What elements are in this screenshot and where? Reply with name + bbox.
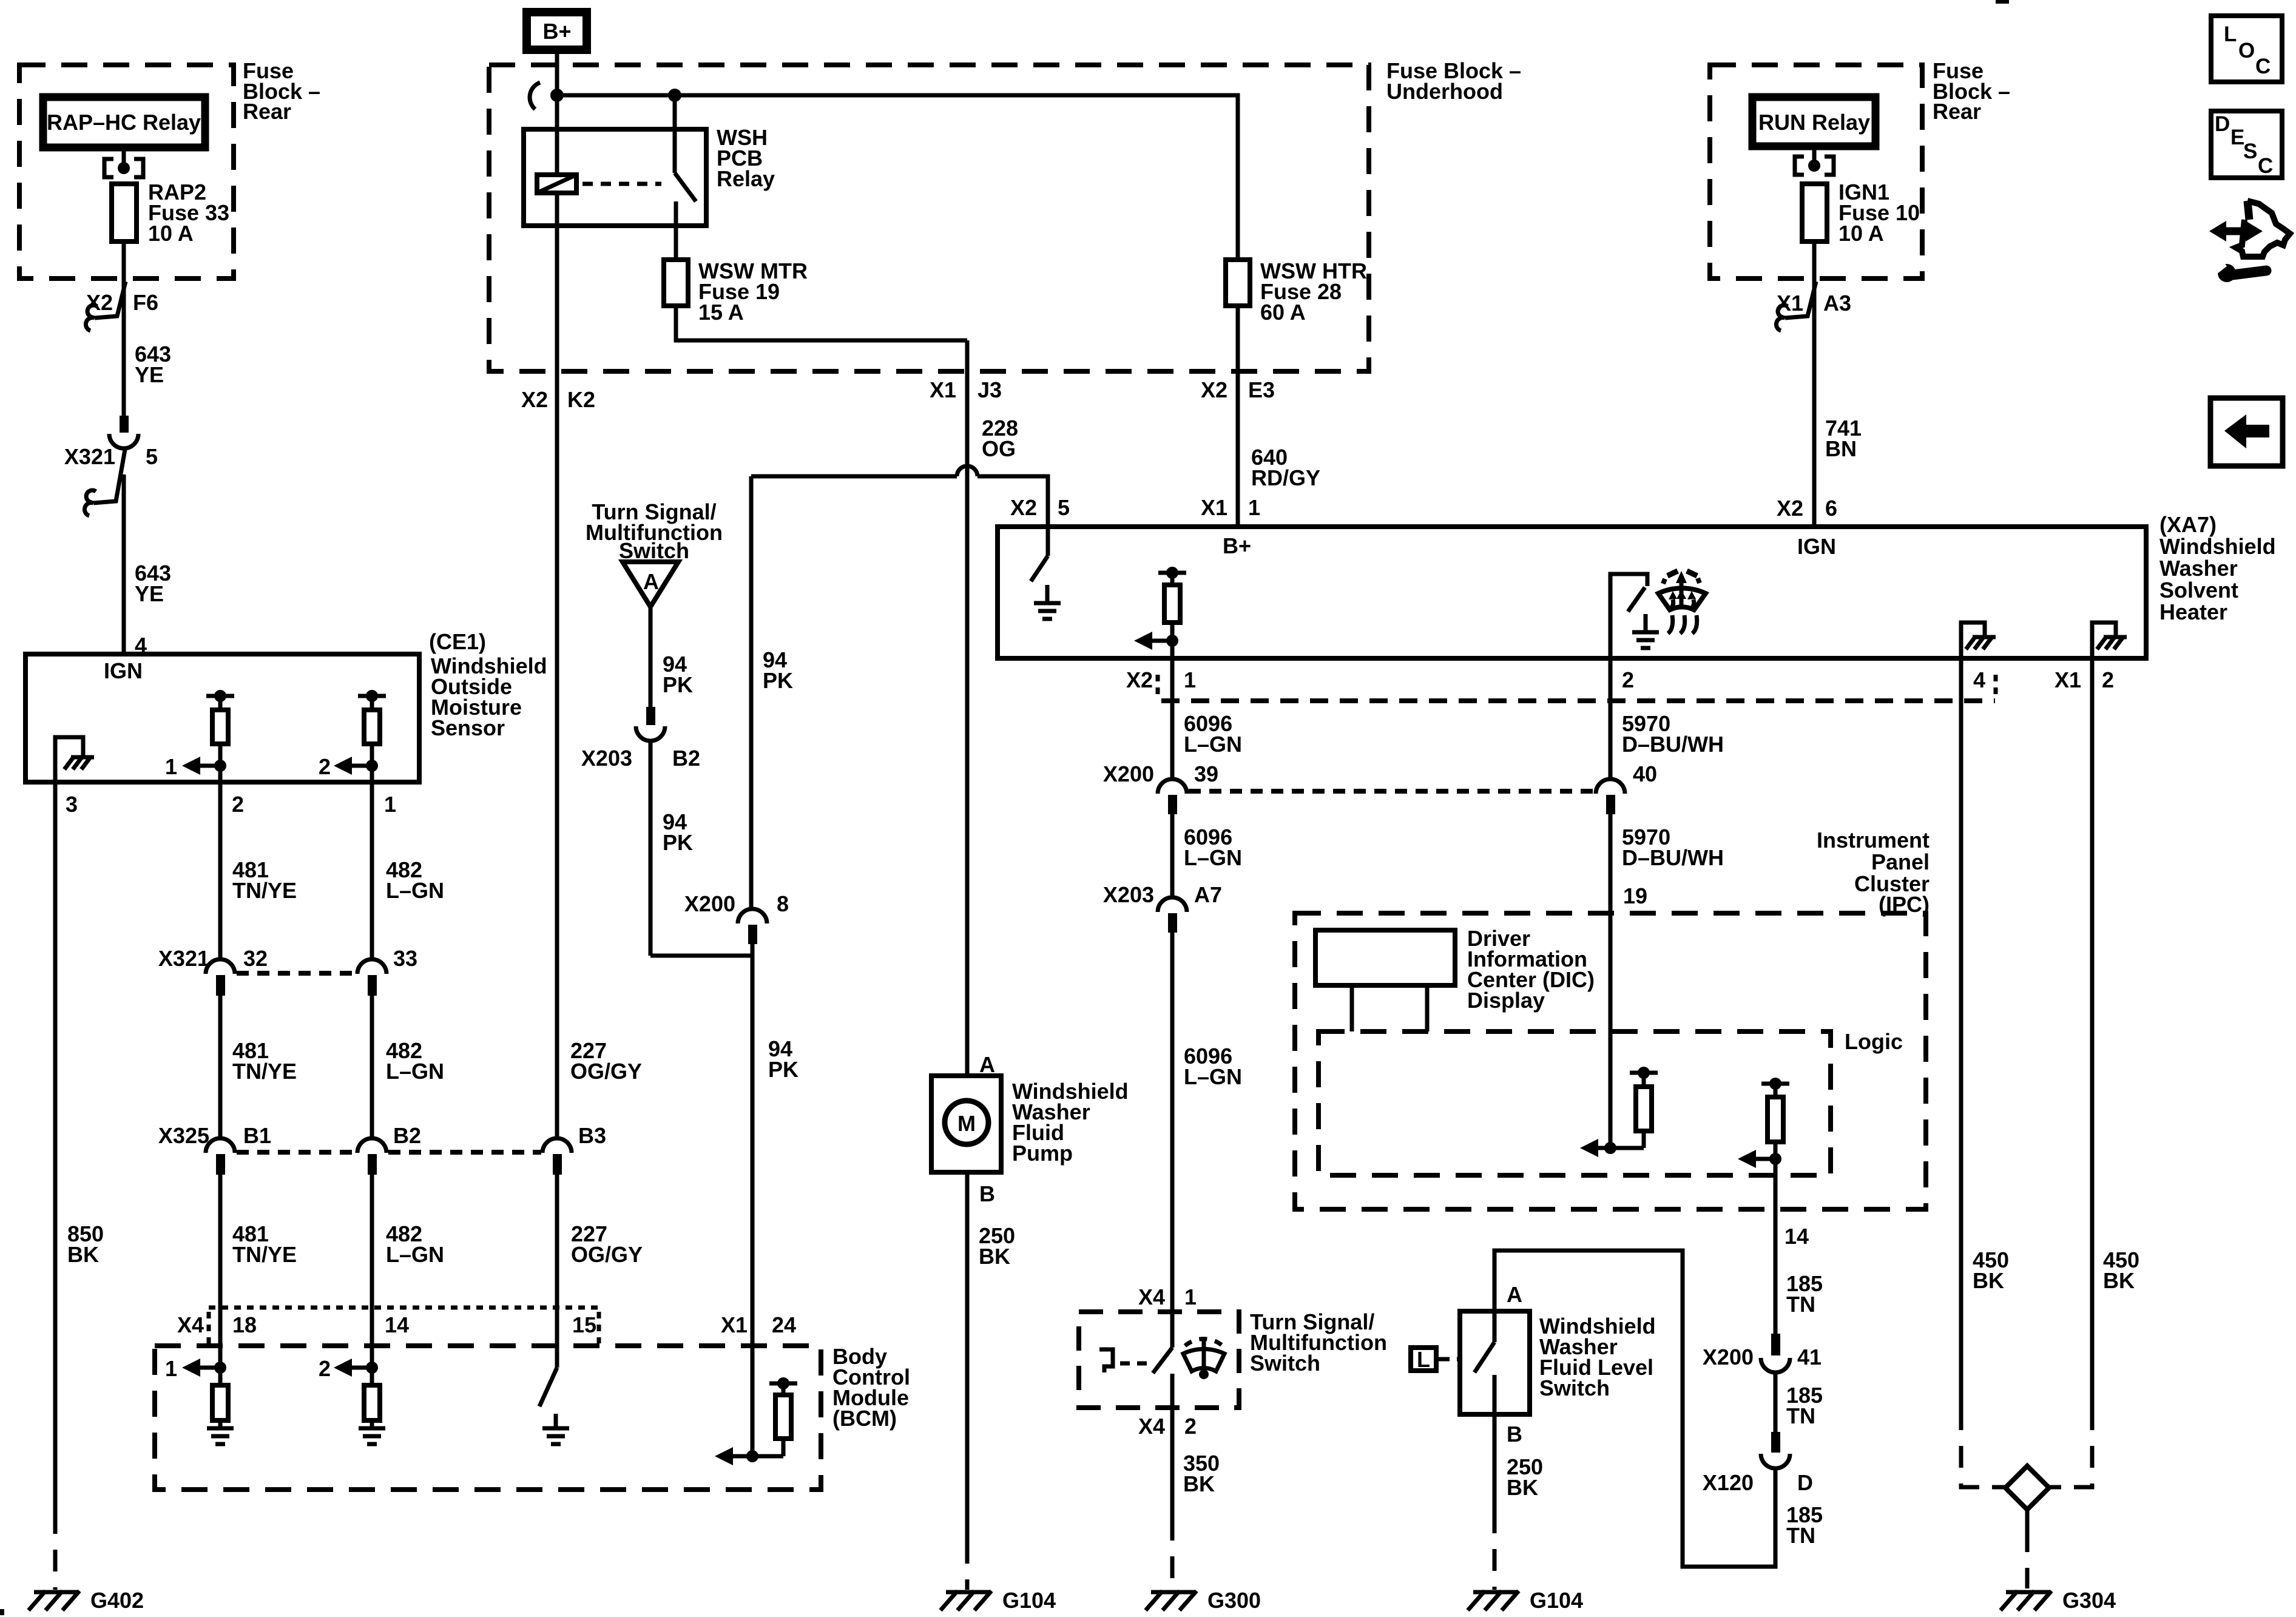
wire 482 L-GN to BCM pin 2 bbox=[370, 1175, 374, 1385]
svg-text:X2: X2 bbox=[1010, 495, 1037, 520]
ground G104 bbox=[940, 1588, 1056, 1613]
svg-text:E3: E3 bbox=[1248, 377, 1275, 402]
WSH PCB Relay box bbox=[524, 129, 706, 226]
svg-text:Switch: Switch bbox=[1539, 1376, 1610, 1400]
svg-text:1: 1 bbox=[165, 1356, 177, 1381]
svg-text:A3: A3 bbox=[1823, 291, 1851, 316]
svg-text:2: 2 bbox=[232, 792, 244, 817]
dashed connector line X200 39-40 bbox=[1189, 789, 1595, 794]
DIC display box bbox=[1315, 930, 1455, 985]
splice diamond bbox=[2005, 1466, 2049, 1510]
B+ bus wire to WSW HTR fuse bbox=[557, 95, 1238, 260]
svg-text:BK: BK bbox=[1507, 1475, 1538, 1500]
back arrow box bbox=[2210, 398, 2283, 466]
svg-text:39: 39 bbox=[1194, 761, 1218, 786]
svg-text:X4: X4 bbox=[1138, 1414, 1165, 1439]
svg-text:A: A bbox=[979, 1052, 995, 1077]
wire 482 L-GN middle bbox=[370, 996, 374, 1139]
svg-text:X1: X1 bbox=[721, 1312, 748, 1337]
svg-text:41: 41 bbox=[1797, 1345, 1822, 1369]
svg-text:Relay: Relay bbox=[717, 166, 775, 191]
heater box bbox=[998, 527, 2146, 658]
DESC box bbox=[2211, 111, 2282, 178]
wire relay to fuse RAP2 bbox=[122, 147, 126, 163]
heater pin5 switch to ground bbox=[1046, 527, 1050, 556]
BCM input 15 switch to ground bbox=[539, 1368, 557, 1406]
svg-text:X4: X4 bbox=[177, 1312, 204, 1337]
svg-text:A: A bbox=[1507, 1282, 1522, 1307]
connector clip at F6 bbox=[95, 282, 126, 318]
fuse block underhood dashed box bbox=[489, 65, 1369, 371]
BCM input 1 resistor to ground bbox=[165, 1356, 234, 1444]
svg-text:X1: X1 bbox=[2055, 667, 2081, 692]
wiper washer icon bbox=[1183, 1337, 1224, 1379]
svg-text:A7: A7 bbox=[1194, 882, 1222, 907]
connector X325 pin B3 bbox=[542, 1138, 572, 1153]
connector X203 pin A7 bbox=[1158, 897, 1187, 912]
fuse RAP2 Fuse 33 10A bbox=[112, 184, 137, 241]
svg-text:PK: PK bbox=[768, 1057, 799, 1082]
svg-text:PK: PK bbox=[663, 672, 693, 697]
connector clip at A3 bbox=[1785, 282, 1816, 318]
svg-text:X200: X200 bbox=[684, 891, 735, 916]
LOC box bbox=[2211, 16, 2282, 82]
wire 228 OG J3 to washer pump A bbox=[965, 340, 970, 1076]
sensor box bbox=[25, 654, 419, 782]
svg-text:2: 2 bbox=[1622, 667, 1634, 692]
svg-text:8: 8 bbox=[777, 891, 789, 916]
svg-text:L–GN: L–GN bbox=[1184, 845, 1242, 870]
svg-text:BK: BK bbox=[1183, 1471, 1215, 1496]
svg-text:D: D bbox=[1797, 1470, 1813, 1495]
svg-text:Logic: Logic bbox=[1845, 1029, 1903, 1054]
dashed link to switch bbox=[1120, 1362, 1150, 1366]
fuse IGN1 Fuse 10 10A bbox=[1802, 184, 1827, 241]
page corner artifacts bbox=[1996, 0, 2009, 4]
wire 185 TN bbox=[1774, 1372, 1778, 1432]
svg-text:YE: YE bbox=[135, 581, 164, 606]
fluid level switch box bbox=[1460, 1311, 1530, 1414]
svg-text:X120: X120 bbox=[1703, 1470, 1754, 1495]
motor circle M bbox=[945, 1101, 988, 1144]
wire K2 down to X325 B3 bbox=[555, 193, 559, 1139]
svg-text:BK: BK bbox=[2103, 1268, 2135, 1293]
svg-text:TN: TN bbox=[1786, 1292, 1815, 1317]
svg-text:B2: B2 bbox=[672, 746, 700, 771]
svg-text:4: 4 bbox=[1973, 667, 1985, 692]
svg-text:G304: G304 bbox=[2062, 1588, 2116, 1613]
svg-text:IGN: IGN bbox=[1797, 534, 1836, 559]
svg-text:IGN: IGN bbox=[104, 658, 143, 683]
svg-text:L–GN: L–GN bbox=[386, 1242, 444, 1267]
wire fuse 33 down to sensor pin 4 bbox=[122, 241, 126, 418]
svg-text:S: S bbox=[2243, 140, 2257, 163]
svg-text:Windshield: Windshield bbox=[2159, 534, 2276, 559]
connector X321 pin 5 : pin and socket bbox=[120, 416, 129, 433]
svg-text:24: 24 bbox=[772, 1312, 796, 1337]
svg-text:G104: G104 bbox=[1530, 1588, 1583, 1613]
svg-text:10 A: 10 A bbox=[1838, 221, 1884, 246]
svg-text:(BCM): (BCM) bbox=[832, 1406, 897, 1431]
svg-text:B+: B+ bbox=[1223, 533, 1251, 558]
svg-text:TN: TN bbox=[1786, 1523, 1815, 1548]
svg-text:Pump: Pump bbox=[1012, 1141, 1073, 1166]
wire 481 TN/YE middle bbox=[218, 996, 223, 1139]
svg-text:32: 32 bbox=[243, 946, 268, 971]
dashed link L to switch bbox=[1439, 1357, 1460, 1362]
svg-text:Switch: Switch bbox=[619, 538, 689, 563]
svg-text:C: C bbox=[2258, 154, 2273, 178]
diagnostic arrow-wrench icon bbox=[2209, 201, 2290, 282]
wire 250 BK pump to G104 bbox=[965, 1172, 970, 1542]
ground G402 bbox=[29, 1588, 144, 1613]
BCM input 24 resistor bbox=[715, 1377, 797, 1465]
svg-text:B: B bbox=[1507, 1422, 1522, 1447]
svg-text:X2: X2 bbox=[86, 290, 113, 315]
svg-text:L–GN: L–GN bbox=[1184, 732, 1242, 757]
svg-text:B+: B+ bbox=[542, 19, 571, 44]
svg-text:X2: X2 bbox=[521, 387, 548, 412]
svg-text:OG/GY: OG/GY bbox=[570, 1059, 642, 1084]
svg-text:RUN Relay: RUN Relay bbox=[1758, 110, 1870, 135]
svg-text:TN/YE: TN/YE bbox=[232, 1059, 297, 1084]
svg-text:X203: X203 bbox=[581, 746, 632, 771]
svg-text:X200: X200 bbox=[1103, 761, 1154, 786]
svg-text:5: 5 bbox=[146, 444, 158, 469]
svg-text:M: M bbox=[957, 1111, 976, 1136]
svg-text:G402: G402 bbox=[90, 1588, 144, 1613]
svg-text:1: 1 bbox=[165, 754, 177, 779]
svg-text:X1: X1 bbox=[1201, 495, 1227, 520]
svg-text:X2: X2 bbox=[1201, 377, 1227, 402]
lever detent element bbox=[1099, 1349, 1113, 1372]
svg-text:BK: BK bbox=[1973, 1268, 2004, 1293]
svg-text:1: 1 bbox=[1184, 667, 1196, 692]
fuse holder brackets IGN1 bbox=[1795, 157, 1804, 175]
wire B+ down into relay bbox=[555, 50, 559, 175]
wire 850 BK pin3 to G402 bbox=[53, 782, 58, 1512]
TS switch blade bbox=[1153, 1348, 1172, 1373]
wire corner to BCM X1-24 bbox=[650, 944, 752, 956]
svg-text:14: 14 bbox=[385, 1312, 409, 1337]
TS switch dashed box bbox=[1079, 1312, 1239, 1408]
connector X200 pin 41 bbox=[1771, 1334, 1780, 1355]
sensor current source pin 1 bbox=[165, 690, 234, 782]
L option box bbox=[1411, 1348, 1436, 1371]
svg-text:B3: B3 bbox=[578, 1123, 606, 1148]
wire 94 PK to corner bbox=[649, 742, 653, 956]
junction node B+ bus bbox=[550, 89, 564, 102]
svg-text:G104: G104 bbox=[1002, 1588, 1056, 1613]
fuse block rear (right) dashed box bbox=[1710, 65, 1922, 279]
svg-text:Solvent: Solvent bbox=[2159, 578, 2238, 603]
svg-text:15 A: 15 A bbox=[698, 300, 744, 325]
svg-text:Display: Display bbox=[1467, 988, 1545, 1013]
wire 481 TN/YE pin2 column bbox=[218, 782, 223, 960]
wire 6096 L-GN bbox=[1170, 814, 1175, 898]
dashed connector line X325 B1-B2 bbox=[237, 1150, 357, 1155]
fuse WSW MTR Fuse 19 15A bbox=[664, 260, 688, 306]
fuse holder brackets RAP2 bbox=[104, 159, 113, 177]
RUN Relay label box bbox=[1752, 97, 1876, 146]
svg-text:X200: X200 bbox=[1703, 1345, 1754, 1369]
label Body Control Module (BCM) bbox=[832, 1344, 910, 1431]
svg-text:B: B bbox=[979, 1181, 995, 1206]
fuse WSW HTR Fuse 28 60A bbox=[1226, 260, 1250, 306]
connector X325 pin B2 bbox=[357, 1138, 387, 1153]
RAP-HC Relay label box bbox=[43, 97, 205, 147]
svg-text:(XA7): (XA7) bbox=[2159, 512, 2217, 537]
svg-text:X4: X4 bbox=[1138, 1284, 1165, 1309]
wire 450 BK pin 4 bbox=[1959, 658, 1963, 1408]
wire 227 OG/GY to BCM 15 bbox=[555, 1175, 559, 1368]
svg-text:OG: OG bbox=[982, 436, 1016, 461]
label (XA7) Windshield Washer Solvent Heater bbox=[2159, 512, 2276, 624]
connector clip below X321-5 bbox=[93, 450, 125, 503]
svg-text:C: C bbox=[2255, 55, 2271, 78]
heater pin X2-1 current source bbox=[1134, 567, 1186, 658]
svg-text:B1: B1 bbox=[243, 1123, 271, 1148]
svg-text:2: 2 bbox=[1184, 1414, 1197, 1439]
svg-text:L: L bbox=[2224, 22, 2237, 46]
svg-text:D: D bbox=[2215, 112, 2230, 136]
heater pin4 internal ground bbox=[1961, 623, 1996, 658]
svg-text:18: 18 bbox=[232, 1312, 257, 1337]
wire 14 out of IPC bbox=[1774, 1159, 1778, 1334]
IPC output 14 resistor bbox=[1738, 1078, 1789, 1168]
wire fuse 19 to J3 bbox=[676, 306, 967, 340]
svg-text:10 A: 10 A bbox=[148, 221, 194, 246]
svg-text:33: 33 bbox=[393, 946, 417, 971]
label Instrument Panel Cluster (IPC) bbox=[1817, 828, 1930, 917]
svg-text:1: 1 bbox=[1248, 495, 1260, 520]
BCM input 2 resistor to ground bbox=[319, 1356, 385, 1444]
wire 185 TN routed to fluid level switch A bbox=[1494, 1251, 1775, 1567]
clip at B+ junction bbox=[530, 83, 540, 109]
wire relay to fuse IGN1 bbox=[1812, 146, 1817, 160]
relay switch bbox=[673, 95, 677, 173]
Logic dashed box bbox=[1319, 1031, 1831, 1175]
sensor current source pin 2 bbox=[319, 690, 386, 782]
wire 450 BK pin X1-2 bbox=[2090, 658, 2095, 1408]
svg-text:G300: G300 bbox=[1207, 1588, 1261, 1613]
svg-text:TN: TN bbox=[1786, 1403, 1815, 1428]
ground G300 bbox=[1146, 1588, 1261, 1613]
svg-text:X203: X203 bbox=[1103, 882, 1154, 907]
svg-text:B2: B2 bbox=[393, 1123, 421, 1148]
ground G104 right bbox=[1468, 1588, 1583, 1613]
label text Fuse Block - Rear bbox=[243, 58, 320, 124]
label (CE1) Windshield Outside Moisture Sensor bbox=[429, 629, 547, 740]
svg-text:O: O bbox=[2238, 39, 2255, 62]
svg-text:F6: F6 bbox=[133, 290, 158, 315]
svg-text:A: A bbox=[643, 569, 659, 594]
svg-text:X1: X1 bbox=[930, 377, 956, 402]
wire 94 PK triangle down bbox=[649, 607, 653, 707]
svg-text:PK: PK bbox=[763, 668, 793, 693]
svg-text:X2: X2 bbox=[1126, 667, 1153, 692]
svg-text:40: 40 bbox=[1633, 761, 1657, 786]
svg-text:2: 2 bbox=[319, 1356, 331, 1381]
connector X120 pin D bbox=[1771, 1432, 1780, 1453]
svg-text:BK: BK bbox=[67, 1242, 99, 1267]
wire 6096 L-GN to X4-1 bbox=[1170, 933, 1175, 1348]
svg-text:Heater: Heater bbox=[2159, 599, 2227, 624]
connector X200 pin 40 bbox=[1596, 779, 1625, 794]
wire 741 BN fuse to heater X2-6 bbox=[1812, 241, 1817, 527]
ground G304 bbox=[2001, 1588, 2116, 1613]
dashed connector line X325 B2-B3 bbox=[388, 1150, 541, 1155]
BCM dashed box bbox=[155, 1346, 821, 1490]
svg-text:19: 19 bbox=[1623, 883, 1647, 908]
wire 481 TN/YE to BCM pin 1 bbox=[218, 1175, 223, 1385]
relay coil-switch dashed link bbox=[582, 182, 661, 186]
svg-text:L: L bbox=[1417, 1347, 1430, 1372]
svg-text:YE: YE bbox=[135, 362, 164, 387]
connector X321 pin 33 bbox=[357, 959, 387, 974]
wire 643 YE to sensor bbox=[122, 474, 126, 654]
wire 350 BK to G300 bbox=[1170, 1408, 1175, 1519]
B+ power symbol box bbox=[527, 12, 587, 50]
svg-text:D–BU/WH: D–BU/WH bbox=[1622, 732, 1724, 757]
svg-text:Instrument: Instrument bbox=[1817, 828, 1930, 852]
connector X203 pin B2 bbox=[646, 707, 655, 725]
connector X321 pin 32 bbox=[206, 959, 235, 974]
connector X200 pin 8 bbox=[738, 909, 767, 923]
svg-text:Rear: Rear bbox=[1933, 99, 1981, 124]
svg-text:RAP–HC Relay: RAP–HC Relay bbox=[47, 110, 201, 135]
sensor internal ground (chassis) bbox=[55, 737, 83, 782]
fuse block rear (left) dashed box bbox=[19, 65, 234, 279]
svg-text:5: 5 bbox=[1058, 495, 1070, 520]
svg-text:L–GN: L–GN bbox=[386, 878, 444, 903]
svg-text:E: E bbox=[2230, 126, 2244, 149]
svg-text:2: 2 bbox=[319, 754, 331, 779]
svg-text:15: 15 bbox=[572, 1312, 596, 1337]
svg-text:J3: J3 bbox=[977, 377, 1002, 402]
svg-text:6: 6 bbox=[1825, 496, 1837, 521]
svg-text:2: 2 bbox=[2102, 667, 2114, 692]
X4 dotted connector row bbox=[209, 1306, 599, 1310]
svg-text:L–GN: L–GN bbox=[386, 1059, 444, 1084]
svg-text:1: 1 bbox=[384, 792, 396, 817]
svg-text:X1: X1 bbox=[1777, 291, 1803, 316]
heater X2 connector dashed row bbox=[1161, 698, 1995, 703]
heated washer icon bbox=[1658, 571, 1706, 633]
svg-text:Underhood: Underhood bbox=[1386, 79, 1503, 104]
connector X325 pin B1 bbox=[206, 1138, 235, 1153]
svg-text:L–GN: L–GN bbox=[1184, 1064, 1242, 1089]
wire 250 BK to G104 bbox=[1493, 1414, 1497, 1511]
pump box bbox=[931, 1076, 1001, 1172]
svg-text:BN: BN bbox=[1825, 436, 1857, 461]
wire 5970 to IPC pin 19 bbox=[1609, 814, 1613, 1148]
svg-text:3: 3 bbox=[66, 792, 78, 817]
svg-text:Rear: Rear bbox=[243, 99, 291, 124]
wire 482 L-GN pin1 column bbox=[370, 782, 374, 960]
svg-text:Switch: Switch bbox=[1250, 1351, 1320, 1376]
svg-text:X321: X321 bbox=[64, 444, 115, 469]
svg-text:(CE1): (CE1) bbox=[429, 629, 486, 654]
svg-text:Washer: Washer bbox=[2159, 556, 2238, 581]
wire 640 RD/GY fuse 28 to heater X1-1 bbox=[1236, 306, 1240, 527]
svg-text:1: 1 bbox=[1184, 1284, 1197, 1309]
svg-text:D–BU/WH: D–BU/WH bbox=[1622, 845, 1724, 870]
relay coil bbox=[537, 175, 576, 193]
svg-text:RD/GY: RD/GY bbox=[1251, 465, 1320, 490]
connector X200 pin 39 bbox=[1158, 779, 1187, 794]
svg-text:X2: X2 bbox=[1777, 496, 1803, 521]
fluid switch blade bbox=[1474, 1342, 1494, 1372]
svg-text:OG/GY: OG/GY bbox=[571, 1242, 643, 1267]
svg-text:Sensor: Sensor bbox=[431, 715, 505, 740]
triangle off-page symbol A bbox=[623, 562, 678, 607]
svg-text:TN/YE: TN/YE bbox=[232, 878, 297, 903]
svg-text:X321: X321 bbox=[158, 946, 209, 971]
svg-text:BK: BK bbox=[979, 1244, 1010, 1269]
IPC dashed box bbox=[1295, 913, 1926, 1209]
junction node relay switch bbox=[668, 89, 681, 102]
svg-text:TN/YE: TN/YE bbox=[232, 1242, 297, 1267]
wire 94 PK down to X200-8 bbox=[749, 476, 754, 909]
svg-text:K2: K2 bbox=[567, 387, 595, 412]
heater pin X1-2 internal ground bbox=[2092, 623, 2127, 658]
svg-text:60 A: 60 A bbox=[1260, 300, 1306, 325]
94 PK horizontal bus with hop over 228 OG bbox=[751, 474, 957, 479]
IPC input 19 resistor bbox=[1580, 1067, 1658, 1157]
svg-text:PK: PK bbox=[663, 830, 693, 855]
svg-text:14: 14 bbox=[1784, 1224, 1809, 1249]
dashed connector line X321 32-33 bbox=[237, 971, 357, 976]
heater pin2 heat switch bbox=[1610, 574, 1647, 658]
svg-text:X325: X325 bbox=[158, 1123, 209, 1148]
svg-text:Panel: Panel bbox=[1871, 849, 1930, 874]
